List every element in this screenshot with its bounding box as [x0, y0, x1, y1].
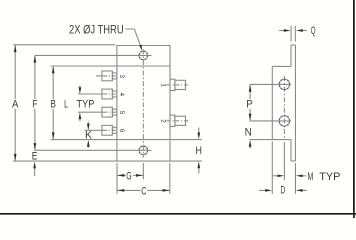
dimension Q left arrow stem — [279, 30, 284, 32]
L TYP upper arrow stem — [79, 85, 81, 87]
right pin 1 body — [175, 80, 186, 89]
svg-text:P: P — [246, 98, 253, 110]
svg-text:M: M — [307, 171, 313, 183]
side view body left face — [271, 66, 273, 139]
left pin 5 body — [102, 107, 113, 117]
svg-text:TYP: TYP — [319, 171, 340, 183]
side view pin 1 crosshair / P extension — [250, 83, 292, 85]
svg-text:N: N — [245, 127, 252, 139]
left pin 3 body — [102, 71, 113, 81]
dimension E lower arrow stem — [34, 168, 36, 176]
dimension P line upper — [249, 84, 251, 99]
svg-text:TYP: TYP — [77, 98, 95, 110]
left pin 5 neck — [112, 109, 117, 115]
dimension E lower arrow — [33, 162, 36, 169]
left pin 6 body — [102, 125, 113, 135]
dimension A bottom arrow — [14, 154, 17, 161]
dimension N lower arrow — [249, 140, 252, 147]
D extension from plate right face — [294, 163, 296, 194]
dimension C line left — [117, 189, 141, 191]
left pin 3 centerline extension — [96, 75, 103, 77]
G/C extension from body left edge — [116, 163, 118, 194]
svg-text:E: E — [32, 150, 38, 162]
dimension A line upper — [14, 45, 16, 99]
svg-text:A: A — [12, 99, 19, 111]
inner top flange extension for B — [51, 65, 117, 67]
front view inner top flange line — [117, 65, 170, 67]
H extension bottom edge line — [170, 160, 202, 162]
dimension G line left — [117, 174, 126, 176]
front view top mounting hole — [139, 51, 148, 60]
dimension A top arrow — [14, 45, 17, 52]
Q extension line left — [290, 26, 292, 42]
left pin 3 neck — [112, 73, 117, 79]
front bottom hole crosshair / F-E extension — [34, 149, 151, 151]
dimension F line lower — [34, 109, 36, 151]
L TYP lower arrow — [79, 112, 82, 119]
dimension M left arrow stem — [272, 175, 278, 177]
dimension P top arrow — [249, 85, 252, 92]
dimension M right arrow stem — [302, 175, 306, 177]
svg-text:2X ØJ THRU: 2X ØJ THRU — [69, 22, 124, 36]
svg-text:F: F — [32, 99, 37, 111]
dimension B line lower — [52, 109, 54, 140]
svg-text:6: 6 — [118, 129, 125, 133]
L TYP upper arrow — [79, 87, 82, 94]
callout leader arrowhead — [139, 45, 142, 51]
svg-text:5: 5 — [118, 111, 125, 115]
dimension K lower arrow stem — [87, 146, 89, 148]
dimension D left arrow stem — [259, 189, 266, 191]
left pin 5 centerline — [103, 111, 117, 113]
dimension D left arrow — [265, 189, 272, 192]
dimension G left arrow — [118, 174, 125, 177]
side view body bottom edge / N extension — [250, 139, 292, 141]
front view bottom mounting hole — [139, 146, 148, 155]
dimension F top arrow — [34, 56, 37, 63]
left pin 6 centerline extension — [85, 129, 103, 131]
front view vertical centerline — [142, 49, 144, 157]
left pin 4 centerline extension — [78, 93, 103, 95]
svg-text:3: 3 — [118, 74, 125, 78]
inner bottom flange extension for B and K — [51, 139, 117, 141]
dimension A line lower — [14, 109, 16, 161]
side view centerline extension for M — [283, 142, 285, 180]
left pin 3 centerline — [103, 75, 117, 77]
dimension F bottom arrow / E top arrow — [34, 143, 37, 150]
dimension C left arrow — [118, 189, 125, 192]
side view body top edge — [272, 65, 291, 67]
dimension B bottom arrow — [52, 132, 55, 139]
dimension C right arrow — [163, 189, 170, 192]
dimension P line lower — [249, 109, 251, 121]
L TYP lower arrow stem — [79, 119, 81, 121]
left pin 6 neck — [112, 127, 117, 133]
dimension Q left arrow — [284, 29, 291, 32]
dimension N lower arrow stem — [249, 147, 251, 149]
side view top tab top edge — [291, 44, 295, 46]
front view centerline extension below for G — [142, 163, 144, 179]
dimension D right arrow — [296, 189, 303, 192]
H extension inner bottom line — [170, 139, 202, 141]
left pin 4 centerline — [103, 93, 117, 95]
side view pin 2 circle — [279, 116, 289, 126]
right pin 2 body — [175, 116, 186, 125]
D extension from body left face — [271, 142, 273, 194]
svg-text:K: K — [85, 129, 93, 141]
right pin 2 centerline — [167, 120, 190, 122]
dimension B top arrow — [52, 67, 55, 74]
svg-text:D: D — [281, 185, 286, 197]
svg-text:Q: Q — [311, 25, 316, 37]
dimension Q right arrow stem — [302, 30, 307, 32]
dimension D right arrow stem — [302, 189, 307, 191]
dimension K upper arrow — [87, 124, 90, 131]
svg-text:B: B — [51, 99, 56, 111]
left pin 6 centerline — [103, 129, 117, 131]
svg-text:L: L — [64, 98, 68, 110]
svg-text:4: 4 — [118, 93, 125, 97]
front view connector body outline — [117, 46, 170, 162]
svg-text:1: 1 — [160, 83, 167, 87]
dimension K lower arrow — [87, 140, 90, 147]
dimension H upper arrow — [197, 133, 200, 140]
side view top tab left face — [290, 45, 292, 66]
svg-text:G: G — [126, 170, 131, 182]
side view pin 1 circle — [279, 79, 289, 89]
front top hole horizontal crosshair / F extension — [35, 54, 152, 56]
dimension P bottom arrow / N top arrow — [249, 114, 252, 121]
dimension H upper arrow stem — [198, 128, 200, 133]
top edge extension line — [13, 44, 115, 46]
left pin 5 centerline extension — [78, 111, 103, 113]
side view flange plate right face — [294, 45, 296, 161]
side view pin 2 crosshair / P-N extension — [250, 120, 292, 122]
callout leader line — [126, 29, 142, 49]
bottom edge extension line left — [13, 160, 117, 162]
dimension M right arrow — [296, 174, 303, 177]
sheet border right — [353, 0, 355, 218]
side view bottom tab left face — [290, 140, 292, 161]
left pin 4 body — [102, 89, 113, 99]
dimension K upper arrow stem — [87, 122, 89, 124]
side view bottom tab bottom edge — [291, 160, 295, 162]
dimension H lower arrow — [197, 162, 200, 169]
right pin 2 flange — [170, 115, 175, 126]
right pin 1 flange — [170, 79, 175, 90]
side view vertical centerline — [283, 76, 285, 138]
svg-text:C: C — [141, 185, 146, 197]
dimension M left arrow — [278, 174, 285, 177]
svg-text:H: H — [196, 145, 202, 157]
Q extension line right — [294, 26, 296, 42]
right pin 1 centerline — [167, 84, 190, 86]
dimension F line upper — [34, 55, 36, 99]
dimension G line right — [133, 174, 143, 176]
C extension from body right edge — [169, 163, 171, 194]
dimension B line upper — [52, 66, 54, 99]
dimension C line right — [147, 189, 170, 191]
sheet border bottom — [0, 213, 356, 215]
left pin 4 neck — [112, 91, 117, 97]
svg-text:2: 2 — [160, 119, 167, 123]
front view inner bottom flange line — [117, 139, 170, 141]
dimension G right arrow — [136, 174, 143, 177]
dimension H lower arrow stem — [198, 168, 200, 173]
dimension Q right arrow — [296, 29, 303, 32]
